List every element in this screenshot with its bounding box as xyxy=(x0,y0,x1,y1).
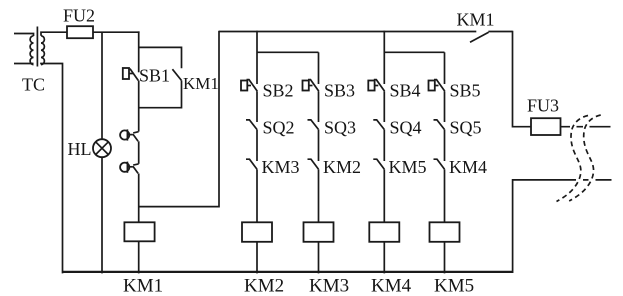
lamp HL xyxy=(93,139,111,157)
pushbutton SB4 xyxy=(368,81,374,91)
coil KM1 xyxy=(124,222,154,241)
pushbutton SB2 xyxy=(241,81,247,91)
wire: column 2 drop xyxy=(318,52,320,84)
svg-text:KM5: KM5 xyxy=(434,276,474,296)
wire: coil KM1 to bottom bus xyxy=(138,241,140,273)
svg-text:SB2: SB2 xyxy=(263,81,294,101)
wire: down to coil KM1 xyxy=(138,174,140,223)
wire: col1 SB2-SQ2 xyxy=(256,91,258,122)
wire: parallel branch top xyxy=(139,47,182,68)
wire: SB1 to parallel box bottom xyxy=(138,81,140,132)
svg-text:SQ3: SQ3 xyxy=(324,118,356,138)
interlock contact KM5 xyxy=(373,159,384,169)
limit switch SQ2 xyxy=(246,120,257,129)
svg-text:KM1: KM1 xyxy=(183,74,219,93)
pushbutton SB1 xyxy=(123,68,129,79)
wire: branch col3 to col4 xyxy=(384,51,444,53)
wire: lower right segments xyxy=(583,179,612,181)
pushbutton SB3 xyxy=(303,81,309,91)
svg-text:SB5: SB5 xyxy=(450,81,481,101)
wire: col3 SB4-SQ4 xyxy=(383,91,385,122)
wire: column 3 drop xyxy=(383,31,385,84)
svg-text:KM1: KM1 xyxy=(123,276,163,296)
wire: col4 to coil xyxy=(444,169,446,222)
wire: col4 SQ5-KM4 xyxy=(444,129,446,161)
wire: FU2 to SB1 drop xyxy=(93,31,140,33)
svg-text:SQ2: SQ2 xyxy=(263,118,295,138)
limit switch SQ5 xyxy=(434,120,445,129)
coil KM2 xyxy=(242,222,272,242)
svg-text:SQ4: SQ4 xyxy=(390,118,422,138)
break mark right curve xyxy=(569,115,601,201)
wire: col2 SQ3-KM2 xyxy=(318,129,320,161)
emergency button contact 2 xyxy=(133,164,138,165)
contact KM1 main xyxy=(470,32,489,42)
coil KM4 xyxy=(369,222,399,242)
svg-text:SB1: SB1 xyxy=(139,66,170,86)
wire: primary bottom stub xyxy=(14,63,34,65)
wire: bus after KM1 xyxy=(488,31,512,33)
svg-text:KM3: KM3 xyxy=(262,157,300,177)
wire: column 1 drop xyxy=(256,31,258,84)
wire: coil KM2 to bus xyxy=(256,242,258,274)
limit switch SQ4 xyxy=(373,120,384,129)
transformer TC secondary winding xyxy=(41,36,44,65)
coil KM3 xyxy=(304,222,334,242)
svg-text:SB4: SB4 xyxy=(390,81,421,101)
wire: primary top stub xyxy=(14,34,34,37)
emergency button contact 1 xyxy=(133,132,138,133)
svg-text:HL: HL xyxy=(68,139,92,159)
interlock contact KM3 xyxy=(246,159,257,169)
transformer TC primary winding xyxy=(30,36,33,65)
svg-text:KM3: KM3 xyxy=(309,276,349,296)
svg-text:KM1: KM1 xyxy=(457,9,495,29)
svg-text:TC: TC xyxy=(22,75,45,95)
wire: HL branch drop xyxy=(101,32,103,139)
contact KM1 self-holding xyxy=(172,69,181,80)
wire: main line into SB1 xyxy=(138,31,140,72)
wire: col2 SB3-SQ3 xyxy=(318,91,320,122)
coil KM5 xyxy=(430,222,460,242)
pushbutton SB5 xyxy=(429,81,435,91)
svg-text:SB3: SB3 xyxy=(324,81,355,101)
wire: col1 SQ2-KM3 xyxy=(256,129,258,161)
wire: column 4 drop xyxy=(444,52,446,84)
transformer TC core xyxy=(36,27,38,67)
wire: FU3 output segments xyxy=(561,126,611,128)
svg-text:KM2: KM2 xyxy=(244,276,284,296)
wire: col3 SQ4-KM5 xyxy=(383,129,385,161)
interlock contact KM4 xyxy=(434,159,445,169)
wire: col4 SB5-SQ5 xyxy=(444,91,446,122)
wire: coil KM4 to bus xyxy=(383,242,385,274)
wire: secondary top to FU2 xyxy=(41,32,67,36)
wire: branch col1 to col2 xyxy=(257,51,319,53)
svg-text:KM4: KM4 xyxy=(449,157,487,177)
wire: lower right riser xyxy=(513,180,576,273)
break mark left curve xyxy=(557,116,589,202)
wire: junction to control bus riser xyxy=(139,31,219,207)
svg-text:KM5: KM5 xyxy=(389,157,427,177)
svg-text:FU3: FU3 xyxy=(527,96,559,116)
wire: between emergency contacts xyxy=(138,141,140,164)
wire: coil KM5 to bus xyxy=(444,242,446,274)
fuse FU3 xyxy=(531,118,561,135)
wire: coil KM3 to bus xyxy=(318,242,320,274)
wire: parallel branch bottom xyxy=(139,80,182,107)
limit switch SQ3 xyxy=(308,120,319,129)
wire: bottom bus xyxy=(63,271,513,273)
wire: right riser to FU3 xyxy=(513,31,532,127)
wire: col3 to coil xyxy=(383,169,385,222)
wire: col2 to coil xyxy=(318,169,320,222)
wire: control bus xyxy=(219,31,476,33)
svg-text:SQ5: SQ5 xyxy=(450,118,482,138)
interlock contact KM2 xyxy=(308,159,319,169)
wire: col1 to coil xyxy=(256,169,258,222)
svg-text:FU2: FU2 xyxy=(63,6,95,26)
fuse FU2 xyxy=(67,26,93,38)
wire: HL to bottom bus xyxy=(101,157,103,273)
wire: secondary bottom down-left rail xyxy=(41,64,63,274)
svg-text:KM2: KM2 xyxy=(323,157,361,177)
svg-text:KM4: KM4 xyxy=(371,276,412,296)
